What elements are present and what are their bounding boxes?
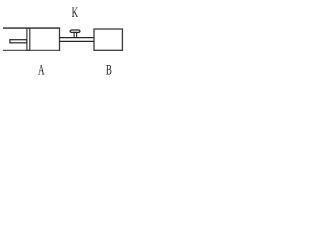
piston rod bbox=[10, 40, 27, 43]
svg-text:B: B bbox=[106, 61, 112, 78]
piston bbox=[27, 28, 30, 50]
cylinder A bottom wall bbox=[3, 49, 60, 51]
svg-text:A: A bbox=[38, 61, 45, 78]
svg-text:K: K bbox=[72, 4, 79, 21]
vessel B bbox=[94, 29, 122, 50]
cylinder A right wall bbox=[59, 28, 61, 51]
cylinder A top wall bbox=[3, 27, 60, 29]
valve K stem bbox=[74, 32, 77, 37]
tube wall top bbox=[60, 37, 95, 39]
valve K cap bbox=[70, 30, 80, 32]
tube wall bottom bbox=[60, 40, 95, 42]
